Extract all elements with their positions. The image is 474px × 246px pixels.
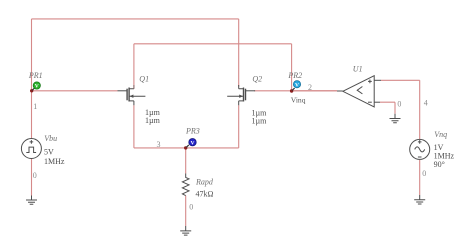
wire node3: Q2 source vertical [238,105,240,148]
svg-text:47kΩ: 47kΩ [196,190,214,199]
svg-text:Q2: Q2 [252,75,262,84]
wire node1: left vertical from top rail down to source V1 [31,19,33,139]
voltage source V1 (square-wave, 5V 1MHz) [21,139,41,159]
wire node4: op-amp + input to V2 [381,80,420,139]
svg-text:V: V [35,84,39,90]
wire node0: source V2 bottom to ground [419,160,421,195]
resistor Rapd [182,174,189,196]
ground under resistor [180,226,191,235]
wire node2: Q1 drain vertical up to inner rail [133,44,135,85]
transistor Q1 [118,85,146,105]
probe PR3 [186,139,196,148]
wire node0: op-amp - input to ground [380,102,395,114]
svg-text:PR2: PR2 [287,71,302,80]
junction PR2 node [290,89,293,92]
ground under V1 [26,196,37,205]
svg-text:1MHz: 1MHz [44,157,65,166]
junction PR3 node [184,146,187,149]
svg-text:1: 1 [33,102,37,111]
svg-text:5V: 5V [44,147,54,156]
svg-text:0: 0 [397,100,401,109]
transistor Q2 (mirrored) [227,85,255,105]
voltage source V2 (AC, 1V 1MHz 90deg) [410,139,430,159]
wire node2: right vertical down to PR2 junction [291,44,293,91]
wire node2: inner top rail [134,43,292,45]
svg-text:1µm: 1µm [145,116,161,125]
svg-text:Vinq: Vinq [291,95,306,104]
svg-text:0: 0 [189,203,193,212]
svg-text:Q1: Q1 [139,75,149,84]
wire node1: horizontal rail PR1 to Q1 gate [32,90,118,92]
probe PR2 [292,81,300,91]
ground under V2 [414,195,425,204]
svg-text:Vbu: Vbu [44,134,57,143]
wire node1: right vertical down to Q2 drain [238,19,240,87]
svg-text:4: 4 [424,98,428,107]
wire node2: PR2 junction to op-amp output stub [292,90,337,92]
svg-text:2: 2 [308,83,312,92]
svg-text:90°: 90° [434,160,445,169]
svg-text:1µm: 1µm [252,117,268,126]
svg-text:3: 3 [157,140,161,149]
svg-text:V: V [191,140,195,146]
ground at op-amp minus input [390,114,401,123]
svg-text:Rapd: Rapd [195,178,214,187]
svg-text:V: V [295,82,299,88]
svg-text:0: 0 [422,169,426,178]
svg-text:PR3: PR3 [185,127,200,136]
svg-text:0: 0 [33,171,37,180]
svg-text:Vnq: Vnq [434,130,447,139]
wire node0: source V1 bottom to ground [31,159,33,196]
svg-text:U1: U1 [353,65,363,74]
wire node2: Q2 gate to op-amp rail [254,90,337,92]
wire node3: bottom rail [134,147,239,149]
wire node0: resistor bottom to ground [185,196,187,226]
wire node3: junction to resistor top [185,148,187,174]
op-amp U1 [337,76,381,107]
wire node1: top horizontal rail [32,18,239,20]
probe PR1 [32,82,40,90]
junction PR1 node [30,89,33,92]
wire node3: Q1 source vertical [133,105,135,148]
svg-text:PR1: PR1 [28,71,43,80]
